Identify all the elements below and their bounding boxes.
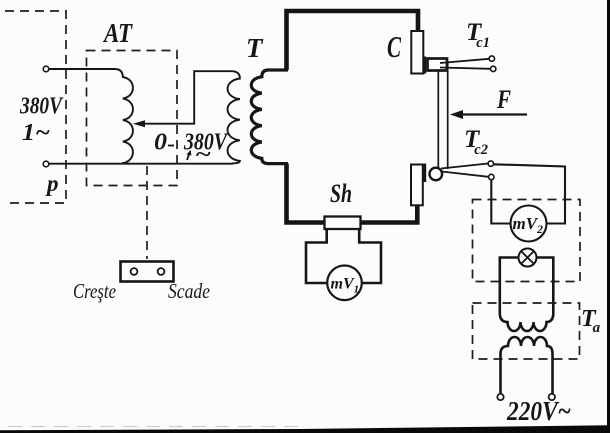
svg-text:~: ~: [195, 142, 211, 166]
svg-text:p: p: [45, 171, 59, 196]
svg-text:Creşte: Creşte: [73, 279, 116, 303]
svg-text:F: F: [496, 85, 511, 114]
svg-text:0: 0: [154, 130, 167, 156]
svg-text:1~: 1~: [22, 120, 50, 146]
svg-text:220V~: 220V~: [506, 396, 571, 426]
svg-text:C: C: [387, 29, 401, 64]
svg-text:T: T: [246, 33, 264, 63]
svg-text:380V: 380V: [19, 94, 63, 120]
svg-text:Sh: Sh: [330, 179, 352, 208]
svg-text:Scade: Scade: [168, 279, 210, 303]
svg-text:AT: AT: [102, 18, 133, 48]
